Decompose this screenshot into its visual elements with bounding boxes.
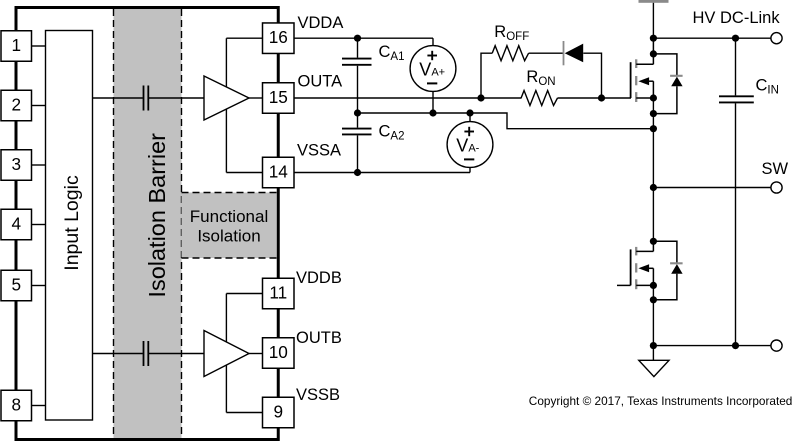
node VSSA junction <box>354 169 361 176</box>
svg-text:Isolation: Isolation <box>197 227 260 246</box>
wire ROFF branch left <box>481 53 492 98</box>
voltage source VA- <box>447 113 493 173</box>
wire input logic to isolation cap B <box>93 353 143 355</box>
pin 2 <box>1 90 32 121</box>
wire VSSA bracket to pin14 <box>226 172 262 174</box>
diode DOFF <box>564 41 584 65</box>
wire VDDA net pin16 to VA+ <box>294 37 433 39</box>
wire VSSA net pin14 to VA- <box>294 172 470 174</box>
svg-text:10: 10 <box>269 342 288 362</box>
wire pin8 to input logic <box>32 405 46 407</box>
wire SW net <box>653 187 771 189</box>
wire input logic to isolation cap A <box>93 97 143 99</box>
IC outline U1 <box>16 8 278 440</box>
node VDDA junction <box>354 35 361 42</box>
diode D1 body diode of Q1 <box>653 54 682 114</box>
svg-text:VDDB: VDDB <box>296 269 342 287</box>
resistor ROFF <box>492 46 528 61</box>
node Q1 source <box>650 94 657 101</box>
wire driver B supply bracket <box>225 294 227 413</box>
wire driver A supply bracket <box>225 38 227 172</box>
wire mid node net <box>358 113 654 129</box>
wire ROFF to diode <box>529 52 564 54</box>
svg-text:HV DC-Link: HV DC-Link <box>693 9 781 27</box>
pin 5 <box>1 270 32 301</box>
driver A triangle <box>204 76 249 120</box>
wire driver B to pin10 <box>249 353 263 355</box>
svg-text:VSSA: VSSA <box>297 142 341 160</box>
wire Q2 source to ground <box>652 285 654 345</box>
wire pin4 to input logic <box>32 224 46 226</box>
node mid net at VA+ <box>429 109 436 116</box>
svg-text:5: 5 <box>11 274 21 294</box>
node mid net at VA- <box>466 109 473 116</box>
node mid net at CA1/CA2 <box>354 109 361 116</box>
isolation barrier gray band <box>114 9 182 438</box>
wire pin2 to input logic <box>32 105 46 107</box>
svg-text:OUTA: OUTA <box>298 73 343 91</box>
wire HV DC-Link net <box>653 37 771 39</box>
svg-text:14: 14 <box>269 161 289 181</box>
capacitor CA2 <box>342 113 372 173</box>
svg-text:VSSB: VSSB <box>296 386 340 404</box>
svg-text:1: 1 <box>11 35 21 55</box>
wire pin1 to input logic <box>32 45 46 47</box>
wire pin3 to input logic <box>32 164 46 166</box>
node D1 anode tap <box>650 110 657 117</box>
capacitor isolation B <box>144 341 149 366</box>
node HV at MOSFET drain <box>650 35 657 42</box>
pin 15 <box>263 83 295 114</box>
capacitor CA1 <box>342 38 372 113</box>
wire VA+ to mid node <box>432 91 434 113</box>
svg-text:16: 16 <box>269 27 288 47</box>
wire rail to HV node <box>652 3 654 38</box>
node mid net at MOSFET source <box>650 125 657 132</box>
svg-text:2: 2 <box>11 94 21 114</box>
node Q2 source <box>650 282 657 289</box>
node D2 anode tap <box>650 296 657 303</box>
capacitor isolation A <box>144 86 149 111</box>
transistor Q2 low-side MOSFET <box>617 241 653 289</box>
svg-text:9: 9 <box>273 401 283 421</box>
wire diode to ROFF branch right <box>583 53 601 98</box>
voltage source VA+ <box>410 46 456 92</box>
terminal SW <box>771 182 782 193</box>
wire driver A to pin15 <box>249 97 263 99</box>
svg-text:15: 15 <box>269 87 288 107</box>
wire OUTA net pin15 to gate <box>294 97 522 99</box>
svg-text:SW: SW <box>762 160 789 178</box>
wire pin5 to input logic <box>32 285 46 287</box>
driver B triangle <box>204 331 249 377</box>
svg-text:Functional: Functional <box>190 207 268 226</box>
resistor RON <box>521 91 557 106</box>
capacitor CIN <box>719 38 754 345</box>
pin 1 <box>1 31 32 62</box>
ground <box>639 346 669 377</box>
pin 4 <box>1 209 32 240</box>
wire SW to Q2 drain <box>652 188 654 242</box>
wire Q1 source to SW <box>652 98 654 188</box>
node ground at Q2 <box>650 342 657 349</box>
node SW junction <box>650 184 657 191</box>
pin 16 <box>263 23 295 54</box>
svg-text:4: 4 <box>11 213 21 233</box>
node OUTA left junction <box>477 94 484 101</box>
terminal ground return <box>771 340 782 351</box>
node HV at CIN <box>732 35 739 42</box>
diode D2 body diode of Q2 <box>653 241 682 299</box>
node Q2 drain <box>650 238 657 245</box>
terminal HV DC-Link <box>771 33 782 44</box>
node OUTA right junction <box>598 94 605 101</box>
pin 9 <box>263 397 295 428</box>
pin 3 <box>1 150 32 181</box>
pin 11 <box>263 278 295 309</box>
transistor Q1 high-side MOSFET <box>631 38 654 102</box>
svg-text:11: 11 <box>269 282 287 302</box>
svg-text:3: 3 <box>11 154 21 174</box>
wire isolation cap B to driver B <box>149 353 204 355</box>
node ground at CIN <box>732 342 739 349</box>
svg-text:OUTB: OUTB <box>296 329 342 347</box>
wire ground net <box>653 345 771 347</box>
pin 10 <box>263 338 295 369</box>
svg-text:Input Logic: Input Logic <box>61 175 83 271</box>
svg-text:VDDA: VDDA <box>298 14 344 32</box>
pin 14 <box>263 157 295 188</box>
wire VDDB bracket to pin11 <box>226 293 262 295</box>
svg-text:Copyright © 2017, Texas Instru: Copyright © 2017, Texas Instruments Inco… <box>529 394 793 408</box>
wire VDDA bracket to pin16 <box>226 37 262 39</box>
pin 8 <box>1 390 32 421</box>
svg-text:Isolation Barrier: Isolation Barrier <box>144 133 170 298</box>
HV DC-Link rail bar <box>639 0 669 3</box>
svg-text:8: 8 <box>11 394 21 414</box>
node D1 cathode tap <box>650 50 657 57</box>
wire isolation cap A to driver A <box>149 97 204 99</box>
functional isolation box <box>182 193 277 259</box>
Input Logic block <box>46 31 93 421</box>
wire VSSB bracket to pin9 <box>226 412 262 414</box>
